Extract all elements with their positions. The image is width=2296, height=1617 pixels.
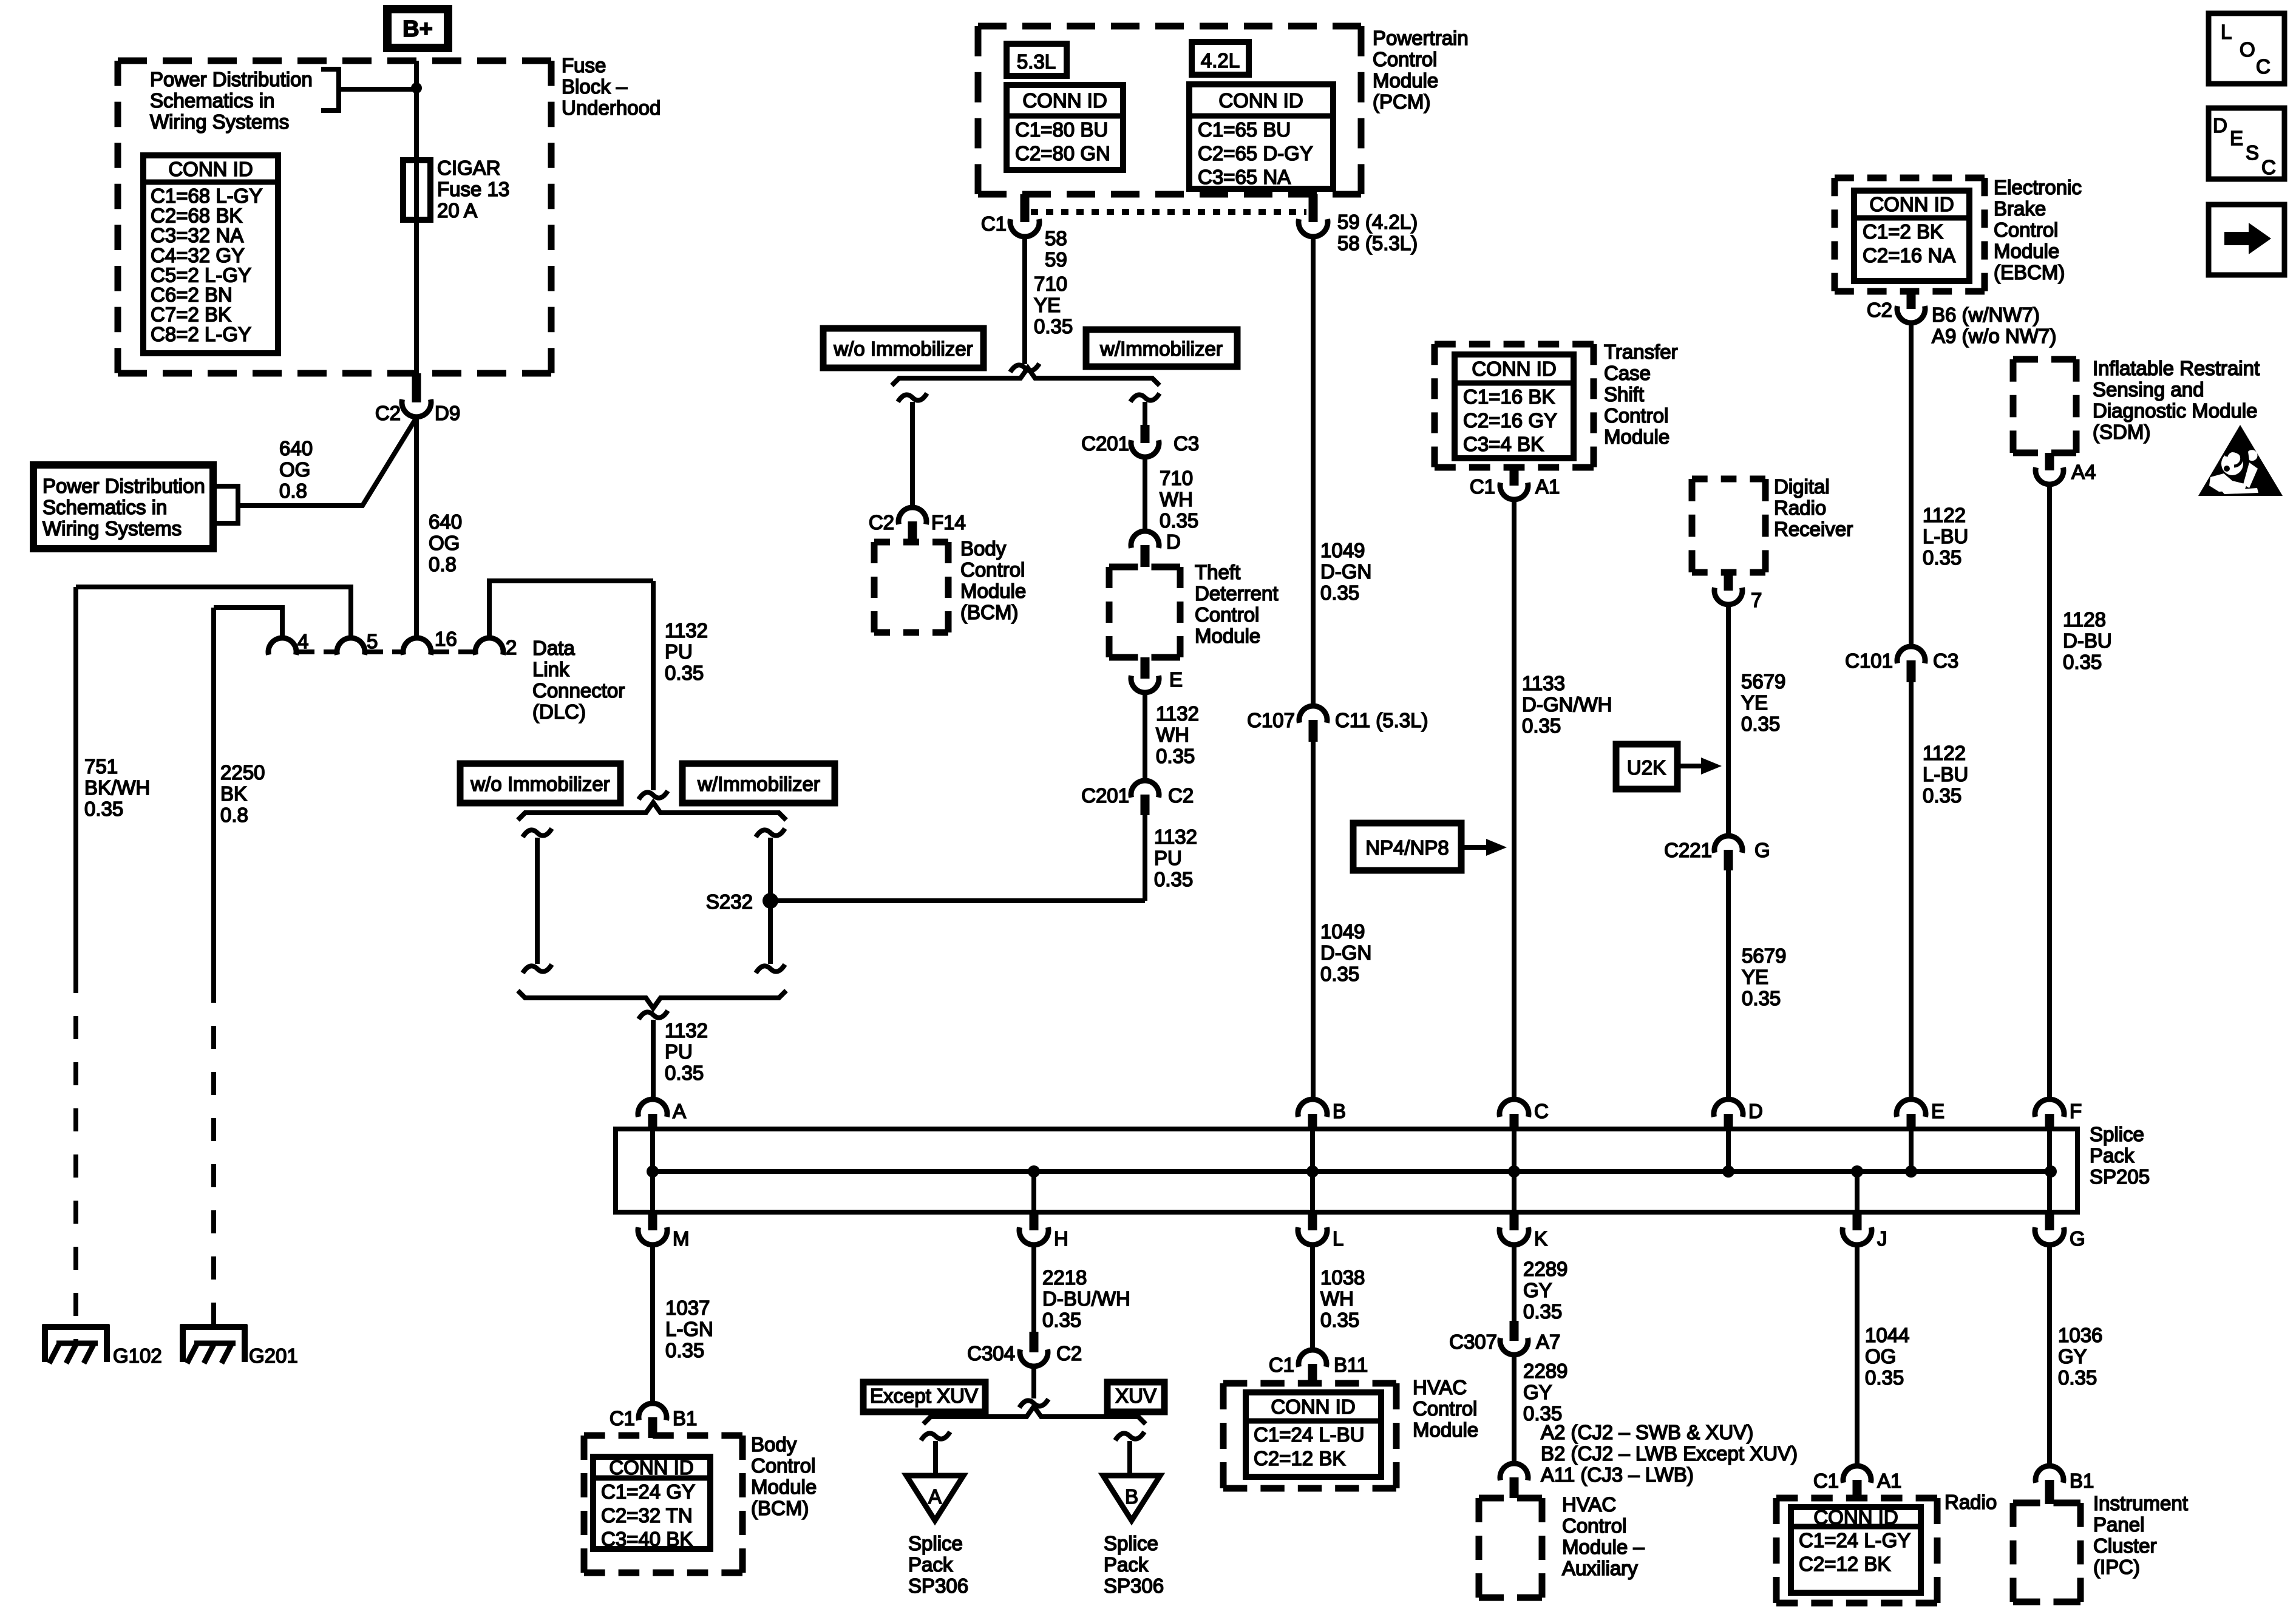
svg-text:C1=24 L-GY: C1=24 L-GY	[1799, 1529, 1911, 1551]
wire 751 BK/WH dashed run to G102	[73, 970, 78, 1343]
svg-text:Splice: Splice	[908, 1532, 963, 1554]
IPC dashed box	[2013, 1500, 2080, 1507]
svg-text:C221: C221	[1664, 839, 1712, 861]
node junction dot on B+ feed	[411, 83, 422, 93]
svg-text:PU: PU	[665, 1040, 693, 1063]
svg-text:C2: C2	[1168, 784, 1194, 807]
svg-text:WH: WH	[1156, 724, 1189, 746]
svg-text:D9: D9	[435, 402, 460, 424]
brace except-XUV/XUV	[923, 1406, 1146, 1424]
wire 2218 D-BU/WH from H	[1031, 1245, 1036, 1332]
wire splice E inside bus	[1909, 1131, 1914, 1171]
svg-text:7: 7	[1751, 589, 1762, 611]
svg-text:PU: PU	[1154, 847, 1182, 869]
CONN ID table fuse block	[143, 155, 278, 353]
EBCM dashed box	[1835, 175, 1985, 181]
svg-text:0.8: 0.8	[429, 553, 457, 575]
wire 1036 GY from G	[2047, 1245, 2052, 1466]
boxed label Power Distribution Schematics in Wiring Systems	[33, 465, 213, 549]
connector C307/A7 arc	[1500, 1338, 1528, 1355]
wire 640 OG down to DLC pin 16	[414, 416, 419, 638]
svg-text:Sensing and: Sensing and	[2093, 378, 2204, 401]
wire-break curl above PCM brace	[1010, 364, 1039, 372]
svg-text:Block –: Block –	[562, 75, 628, 98]
svg-text:w/Immobilizer: w/Immobilizer	[1099, 337, 1223, 360]
connector C1/B11 arc (HVAC)	[1299, 1350, 1326, 1367]
wire 1132 PU from DLC pin 2 down	[651, 581, 656, 790]
svg-text:0.35: 0.35	[1865, 1366, 1904, 1389]
splice S232	[763, 893, 778, 909]
wire-break curl below brace	[639, 1011, 668, 1019]
svg-text:0.8: 0.8	[220, 804, 248, 826]
svg-text:2218: 2218	[1042, 1266, 1087, 1289]
CONN ID table transfer case	[1455, 354, 1574, 458]
svg-text:(BCM): (BCM)	[751, 1497, 809, 1519]
connector C1/A1 stub (radio)	[1853, 1480, 1862, 1499]
svg-text:Case: Case	[1604, 362, 1651, 384]
svg-text:0.35: 0.35	[1923, 546, 1961, 569]
junction dot on SP205 at x=2162	[1306, 1165, 1319, 1178]
svg-text:G201: G201	[249, 1344, 298, 1367]
svg-text:Panel: Panel	[2093, 1513, 2144, 1536]
svg-text:(IPC): (IPC)	[2093, 1556, 2140, 1578]
connector C1/A1 stub (transfer)	[1510, 467, 1519, 486]
svg-text:L-BU: L-BU	[1923, 525, 1968, 547]
connector C2/F14 arc	[898, 507, 926, 524]
svg-text:OG: OG	[1865, 1345, 1896, 1368]
wire 1044 OG from J	[1855, 1245, 1860, 1466]
wire 1128 D-BU to splice F	[2047, 484, 2052, 1100]
svg-text:Control: Control	[1562, 1514, 1626, 1537]
svg-text:0.35: 0.35	[665, 1062, 704, 1084]
connector pin 7 stub	[1724, 572, 1733, 591]
svg-text:C101: C101	[1845, 649, 1893, 672]
connector C1/B1 stub	[648, 1417, 657, 1438]
svg-text:U2K: U2K	[1627, 756, 1666, 779]
svg-text:D-GN/WH: D-GN/WH	[1522, 693, 1612, 716]
svg-text:C: C	[2256, 55, 2271, 78]
svg-text:20 A: 20 A	[437, 199, 477, 222]
svg-text:SP205: SP205	[2090, 1165, 2150, 1188]
svg-text:1122: 1122	[1923, 742, 1966, 764]
svg-text:1049: 1049	[1320, 539, 1365, 561]
DLC dashed bottom edge seg 3	[433, 649, 474, 654]
svg-text:Fuse 13: Fuse 13	[437, 178, 509, 200]
svg-text:16: 16	[435, 628, 457, 650]
svg-text:C2: C2	[1867, 299, 1892, 321]
svg-text:C1: C1	[1470, 475, 1495, 498]
svg-text:2250: 2250	[220, 761, 265, 784]
boxed label 5.3L	[1007, 44, 1067, 76]
svg-text:0.35: 0.35	[1320, 581, 1359, 604]
svg-text:C7=2 BK: C7=2 BK	[151, 303, 231, 326]
svg-text:(EBCM): (EBCM)	[1994, 261, 2065, 283]
digital radio receiver dashed box	[1692, 476, 1765, 483]
radio dashed box	[1776, 1495, 1937, 1502]
connector E arc (bus top)	[1897, 1099, 1926, 1117]
connector PCM C1 (5.3L) stub	[1021, 194, 1030, 222]
svg-text:BK/WH: BK/WH	[84, 776, 150, 799]
svg-text:2289: 2289	[1523, 1360, 1567, 1382]
svg-text:751: 751	[84, 755, 118, 778]
svg-text:D-BU/WH: D-BU/WH	[1042, 1287, 1130, 1310]
svg-text:Body: Body	[960, 537, 1007, 560]
svg-text:C3=32 NA: C3=32 NA	[151, 224, 243, 246]
svg-text:C2=65 D-GY: C2=65 D-GY	[1198, 142, 1313, 164]
svg-text:Wiring Systems: Wiring Systems	[150, 110, 289, 133]
svg-text:C2=80 GN: C2=80 GN	[1015, 142, 1110, 164]
connector G arc (bus bottom)	[2045, 1210, 2054, 1230]
svg-text:Module –: Module –	[1562, 1536, 1645, 1558]
connector PCM C1 (4.2L) stub	[1309, 194, 1318, 222]
svg-text:Electronic: Electronic	[1994, 176, 2082, 198]
svg-text:Brake: Brake	[1994, 197, 2046, 220]
svg-text:A7: A7	[1536, 1331, 1560, 1353]
svg-text:5.3L: 5.3L	[1017, 50, 1056, 73]
svg-text:Fuse: Fuse	[562, 54, 606, 76]
wire 5679 YE down to C221	[1726, 605, 1731, 836]
svg-text:C: C	[2261, 156, 2276, 178]
svg-text:1038: 1038	[1320, 1266, 1365, 1289]
connector C101/C3 stub	[1907, 660, 1916, 682]
wire 2250 BK solid	[211, 608, 216, 980]
DLC dashed bottom edge seg 1	[299, 649, 336, 654]
connector EBCM C2 arc	[1897, 306, 1925, 323]
svg-text:0.35: 0.35	[665, 662, 704, 684]
wire DLC pin 4 to ground run	[214, 608, 282, 638]
svg-text:HVAC: HVAC	[1562, 1493, 1616, 1516]
fuse block dashed box (Fuse Block - Underhood)	[118, 58, 551, 64]
boxed label Except XUV	[863, 1382, 985, 1412]
svg-text:C1=24 L-BU: C1=24 L-BU	[1254, 1423, 1365, 1446]
svg-text:0.35: 0.35	[2063, 651, 2102, 673]
splice pack SP205 box	[616, 1129, 2077, 1212]
svg-text:0.35: 0.35	[665, 1339, 704, 1361]
svg-text:Receiver: Receiver	[1774, 518, 1853, 540]
svg-text:C5=2 L-GY: C5=2 L-GY	[151, 263, 251, 286]
CONN ID table HVAC	[1246, 1392, 1381, 1477]
wire 1132 PU from C201 to S232	[1143, 815, 1147, 901]
connector pin 7 arc	[1714, 588, 1742, 605]
svg-text:A: A	[673, 1100, 686, 1122]
splice pack SP306 triangle B	[1103, 1476, 1160, 1520]
svg-text:C107: C107	[1247, 709, 1295, 731]
CONN ID table EBCM	[1854, 191, 1969, 281]
svg-text:C201: C201	[1081, 432, 1129, 455]
LOC legend box	[2209, 13, 2284, 84]
svg-text:0.8: 0.8	[279, 480, 307, 502]
boxed label w/Immobilizer (DLC)	[682, 764, 835, 803]
DLC pin 5 arc	[337, 638, 365, 655]
connector E arc (theft)	[1131, 676, 1159, 693]
svg-text:Power Distribution: Power Distribution	[42, 475, 205, 497]
svg-text:A4: A4	[2071, 461, 2096, 483]
svg-text:5679: 5679	[1741, 670, 1785, 693]
svg-text:0.35: 0.35	[84, 798, 123, 820]
wire 1122 L-BU from C101 to splice E	[1909, 682, 1914, 1100]
svg-text:C3=40 BK: C3=40 BK	[601, 1528, 693, 1550]
svg-text:(SDM): (SDM)	[2093, 421, 2150, 443]
svg-text:Control: Control	[1994, 219, 2058, 241]
svg-text:w/o Immobilizer: w/o Immobilizer	[833, 337, 973, 360]
svg-text:A9 (w/o NW7): A9 (w/o NW7)	[1932, 325, 2056, 347]
connector A arc (bus top)	[638, 1099, 667, 1117]
svg-text:710: 710	[1034, 273, 1067, 295]
svg-text:B11: B11	[1334, 1354, 1368, 1376]
svg-text:59: 59	[1045, 248, 1067, 271]
arrow NP4/NP8 to wire	[1461, 845, 1487, 850]
connector H arc (bus bottom)	[1030, 1210, 1039, 1230]
svg-text:A11 (CJ3 – LWB): A11 (CJ3 – LWB)	[1541, 1463, 1694, 1486]
svg-text:D: D	[2213, 114, 2227, 137]
wire 751 BK/WH solid	[73, 587, 78, 970]
svg-text:Power Distribution: Power Distribution	[150, 68, 313, 90]
svg-text:SP306: SP306	[1104, 1575, 1164, 1597]
svg-text:YE: YE	[1742, 966, 1768, 988]
svg-text:1122: 1122	[1923, 504, 1966, 526]
svg-text:Module: Module	[1413, 1419, 1478, 1441]
brace merge (lower, DLC)	[518, 991, 786, 1008]
svg-text:640: 640	[279, 437, 313, 459]
svg-text:CONN ID: CONN ID	[168, 158, 253, 180]
svg-text:Cluster: Cluster	[2093, 1534, 2157, 1557]
connector C107/C11 arc	[1299, 706, 1327, 723]
svg-text:NP4/NP8: NP4/NP8	[1365, 836, 1449, 859]
svg-text:0.35: 0.35	[1741, 713, 1780, 735]
svg-text:C3=4 BK: C3=4 BK	[1463, 433, 1544, 455]
connector C1/B11 stub	[1308, 1364, 1317, 1385]
svg-text:0.35: 0.35	[1154, 868, 1193, 890]
svg-text:Pack: Pack	[1104, 1553, 1149, 1576]
svg-text:0.35: 0.35	[1523, 1300, 1562, 1323]
svg-text:A1: A1	[1535, 475, 1560, 498]
connector HVAC aux arc	[1500, 1463, 1528, 1480]
wire 1132 PU to splice pack A	[651, 1020, 656, 1100]
connector C201/C2 arc	[1131, 781, 1159, 798]
svg-text:C6=2 BN: C6=2 BN	[151, 283, 233, 306]
svg-text:Module: Module	[1604, 425, 1669, 448]
svg-text:E: E	[1931, 1100, 1944, 1122]
boxed label U2K	[1616, 744, 1677, 789]
svg-text:B6 (w/NW7): B6 (w/NW7)	[1932, 303, 2040, 326]
svg-text:B1: B1	[2070, 1470, 2094, 1492]
junction dot on SP205 at x=3378	[2045, 1165, 2057, 1178]
svg-text:C2: C2	[1056, 1342, 1082, 1364]
svg-text:OG: OG	[279, 458, 310, 481]
svg-text:WH: WH	[1320, 1287, 1354, 1310]
svg-text:(BCM): (BCM)	[960, 601, 1018, 623]
svg-text:C1=24 GY: C1=24 GY	[601, 1480, 695, 1503]
wire DLC pin 5 to ground run	[76, 587, 351, 638]
svg-text:L-BU: L-BU	[1923, 763, 1968, 785]
svg-text:G: G	[2070, 1227, 2085, 1250]
svg-text:Module: Module	[1373, 69, 1438, 92]
svg-text:5679: 5679	[1742, 944, 1786, 967]
svg-text:F14: F14	[931, 511, 966, 534]
wire 1037 L-GN from M	[650, 1245, 655, 1403]
svg-text:S: S	[2246, 141, 2259, 164]
wire to splice pack B	[1115, 1432, 1144, 1440]
svg-text:B+: B+	[402, 16, 433, 42]
DLC dashed bottom edge seg 2	[367, 649, 402, 654]
wire splice F-G inside bus	[2047, 1131, 2052, 1210]
junction dot on SP205 at x=1703	[1028, 1165, 1040, 1178]
power feed B+ terminal box	[387, 9, 448, 48]
svg-text:Control: Control	[751, 1454, 815, 1477]
svg-text:BK: BK	[220, 782, 247, 805]
svg-text:B: B	[1333, 1100, 1346, 1122]
svg-text:Instrument: Instrument	[2093, 1492, 2188, 1514]
svg-text:Shift: Shift	[1604, 383, 1644, 405]
svg-text:Module: Module	[960, 580, 1026, 602]
svg-text:4.2L: 4.2L	[1201, 49, 1240, 72]
svg-text:4: 4	[297, 630, 308, 653]
svg-text:Module: Module	[751, 1476, 817, 1498]
svg-text:0.35: 0.35	[1042, 1309, 1081, 1331]
svg-text:C1: C1	[610, 1407, 635, 1429]
wire splice H inside bus	[1031, 1171, 1036, 1210]
svg-text:C1=80 BU: C1=80 BU	[1015, 118, 1108, 141]
svg-text:C2: C2	[375, 402, 401, 424]
connector D arc (bus top)	[1714, 1099, 1743, 1117]
svg-text:1128: 1128	[2063, 608, 2106, 631]
svg-text:L-GN: L-GN	[665, 1318, 713, 1340]
connector C107 stub	[1309, 720, 1318, 742]
svg-text:w/Immobilizer: w/Immobilizer	[697, 773, 820, 795]
svg-text:G: G	[1754, 839, 1770, 861]
connector C2/D9 arc	[402, 399, 431, 417]
svg-text:1132: 1132	[665, 1019, 708, 1042]
svg-text:Pack: Pack	[908, 1553, 953, 1576]
svg-text:1132: 1132	[1156, 702, 1199, 725]
connector C201/C3 arc	[1131, 440, 1159, 457]
svg-text:J: J	[1877, 1227, 1887, 1250]
svg-text:(DLC): (DLC)	[532, 700, 586, 723]
svg-text:Splice: Splice	[1104, 1532, 1158, 1554]
junction dot on SP205 at x=3059	[1851, 1165, 1863, 1178]
svg-text:710: 710	[1160, 467, 1193, 489]
junction dot on SP205 at x=3148	[1905, 1165, 1917, 1178]
svg-text:Pack: Pack	[2090, 1144, 2135, 1167]
svg-text:Schematics in: Schematics in	[150, 89, 274, 112]
svg-text:59 (4.2L): 59 (4.2L)	[1337, 211, 1418, 233]
svg-text:M: M	[673, 1227, 690, 1250]
svg-text:C1=16 BK: C1=16 BK	[1463, 385, 1555, 408]
svg-text:C2=16 GY: C2=16 GY	[1463, 409, 1557, 432]
wire 1038 WH from L	[1310, 1245, 1315, 1350]
svg-text:Body: Body	[751, 1433, 797, 1456]
wire 1049 D-GN from PCM to C107	[1311, 236, 1316, 706]
svg-text:Control: Control	[1195, 603, 1259, 626]
svg-text:w/o Immobilizer: w/o Immobilizer	[470, 773, 610, 795]
connector M arc (bus bottom)	[648, 1210, 657, 1230]
svg-text:E: E	[1169, 668, 1183, 691]
BCM dashed box (upper)	[874, 539, 948, 546]
svg-text:1036: 1036	[2058, 1324, 2102, 1346]
DLC outline top	[489, 581, 653, 638]
bracket to power distribution (boxed)	[216, 486, 238, 523]
svg-text:Module: Module	[1195, 625, 1260, 647]
svg-text:C3: C3	[1173, 432, 1199, 455]
wire 5679 YE from C221 to splice D	[1726, 870, 1731, 1100]
svg-text:C1: C1	[981, 212, 1007, 235]
junction dot on SP205 at x=2847	[1722, 1165, 1734, 1178]
connector PCM C1 (4.2L) arc	[1299, 219, 1328, 237]
svg-text:C11 (5.3L): C11 (5.3L)	[1335, 709, 1428, 731]
connector C2/F14 stub	[908, 521, 917, 542]
svg-text:G102: G102	[113, 1344, 162, 1367]
svg-text:0.35: 0.35	[2058, 1366, 2097, 1389]
svg-text:CONN ID: CONN ID	[1813, 1506, 1898, 1528]
svg-text:1132: 1132	[665, 619, 708, 642]
svg-text:Transfer: Transfer	[1604, 341, 1678, 363]
svg-text:Digital: Digital	[1774, 475, 1830, 498]
connector PCM C1 (5.3L) arc	[1010, 219, 1039, 237]
connector D arc (theft deterrent)	[1131, 531, 1159, 548]
svg-text:0.35: 0.35	[1923, 784, 1961, 807]
svg-text:CONN ID: CONN ID	[1218, 89, 1303, 112]
svg-text:B2 (CJ2 – LWB Except XUV): B2 (CJ2 – LWB Except XUV)	[1541, 1442, 1798, 1465]
DESC legend box	[2209, 108, 2284, 179]
splice pack SP205 internal wire	[653, 1169, 2051, 1174]
svg-text:C2: C2	[869, 511, 894, 534]
boxed label NP4/NP8	[1353, 823, 1461, 870]
svg-text:Splice: Splice	[2090, 1123, 2144, 1145]
svg-text:CONN ID: CONN ID	[1472, 358, 1556, 380]
svg-text:A1: A1	[1877, 1470, 1901, 1492]
wire splice B-L inside bus	[1310, 1131, 1315, 1210]
svg-text:Control: Control	[1413, 1397, 1477, 1420]
svg-text:C: C	[1534, 1100, 1549, 1122]
svg-text:D: D	[1748, 1100, 1763, 1122]
svg-text:SP306: SP306	[908, 1575, 968, 1597]
svg-text:YE: YE	[1034, 294, 1061, 316]
svg-text:1044: 1044	[1865, 1324, 1909, 1346]
svg-text:C8=2 L-GY: C8=2 L-GY	[151, 323, 251, 345]
connector A4 stub	[2045, 453, 2054, 470]
connector D stub	[1141, 545, 1150, 567]
svg-text:L: L	[2221, 21, 2232, 43]
wire C304 to XUV brace	[1031, 1366, 1036, 1398]
svg-text:Control: Control	[960, 558, 1025, 581]
svg-text:O: O	[2240, 38, 2255, 61]
svg-text:E: E	[2230, 127, 2243, 149]
svg-text:1049: 1049	[1320, 920, 1365, 943]
svg-text:Theft: Theft	[1195, 561, 1240, 583]
wire 1133 D-GN/WH to splice C	[1512, 500, 1517, 1100]
svg-text:A2 (CJ2 – SWB & XUV): A2 (CJ2 – SWB & XUV)	[1541, 1421, 1753, 1443]
connector C201/C3 stub	[1141, 425, 1150, 443]
SDM dashed box	[2013, 356, 2076, 363]
svg-text:L: L	[1333, 1227, 1343, 1250]
svg-text:Diagnostic Module: Diagnostic Module	[2093, 399, 2257, 422]
svg-text:C4=32 GY: C4=32 GY	[151, 244, 245, 266]
CONN ID table PCM 4.2L	[1189, 84, 1333, 189]
junction dot on SP205 at x=2494	[1508, 1165, 1520, 1178]
PCM dotted interconnect line	[1031, 209, 1306, 215]
svg-text:(PCM): (PCM)	[1373, 90, 1430, 113]
wire 2289 GY from K	[1512, 1245, 1517, 1321]
svg-text:GY: GY	[1523, 1279, 1552, 1301]
connector C2/D9 stub	[412, 373, 421, 402]
connector C304/C2 stub	[1030, 1332, 1039, 1352]
connector C1/A1 arc (transfer)	[1500, 483, 1528, 500]
svg-text:58 (5.3L): 58 (5.3L)	[1337, 232, 1418, 254]
ground G102	[42, 1324, 109, 1330]
boxed label XUV	[1107, 1382, 1164, 1412]
svg-text:C2=12 BK: C2=12 BK	[1254, 1447, 1345, 1470]
svg-text:Underhood: Underhood	[562, 97, 661, 119]
